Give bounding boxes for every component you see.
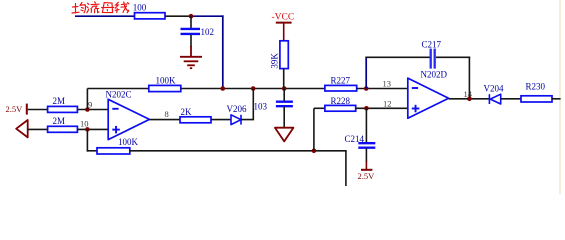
wire C217 riser right [468, 57, 470, 99]
svg-text:103: 103 [254, 101, 268, 111]
resistor R227 [325, 85, 357, 91]
wire 100K-top net (black, y=88.5) [87, 88, 148, 90]
svg-text:2M: 2M [53, 96, 66, 106]
power port 2.5V (bottom) [365, 161, 367, 170]
junction main net / diode node [251, 86, 256, 91]
junction bottom net / R228 riser [312, 149, 317, 154]
svg-text:102: 102 [201, 27, 215, 37]
op-amp N202C [108, 99, 149, 139]
capacitor 102 lower pin [190, 35, 192, 47]
svg-text:2M: 2M [53, 116, 66, 126]
svg-text:2.5V: 2.5V [6, 104, 24, 114]
svg-text:C217: C217 [422, 39, 442, 49]
wire 2M to pin10 [77, 128, 108, 130]
op-amp N202D [408, 78, 449, 118]
svg-text:8: 8 [165, 109, 169, 119]
diode V204 [488, 94, 490, 104]
svg-text:100: 100 [133, 3, 147, 13]
wire C217 riser left (navy) [365, 57, 367, 89]
resistor 39K [280, 41, 288, 69]
流 [87, 3, 89, 13]
wire vertical corner down to main net (navy) [222, 15, 224, 88]
wire diode to corner and up [241, 89, 253, 120]
wire resistor100 right pin (black) [165, 15, 191, 17]
wire to 2M bottom [28, 128, 48, 130]
svg-text:39K: 39K [270, 53, 280, 69]
junction pin 9 [85, 107, 90, 112]
wire R230 to sheet edge [552, 98, 561, 100]
svg-text:N202C: N202C [106, 90, 132, 100]
wire feedback riser (pin9 up to 100K net) [86, 89, 88, 110]
svg-text:2.5V: 2.5V [358, 171, 376, 181]
wire bottom net drop (to next stage) [345, 151, 347, 186]
svg-text:100K: 100K [156, 75, 177, 85]
wire y=88.5 middle run [181, 88, 325, 90]
线 [115, 2, 119, 12]
junction (top, cap 102 tap) [189, 14, 194, 19]
junction main net / 39K node [282, 86, 287, 91]
wire op-amp D output [449, 98, 490, 100]
svg-text:R227: R227 [331, 76, 351, 86]
capacitor C214 upper pin [365, 108, 367, 142]
wire pin10 down to bottom 100K [86, 129, 88, 151]
wire junction to corner (navy) [191, 15, 224, 17]
wire to 2M top [28, 109, 48, 111]
capacitor C102 pin (black stub) [190, 16, 192, 28]
junction pin12 / C214 [364, 106, 369, 111]
wire into bottom 100K [87, 150, 97, 152]
resistor R228 [325, 105, 356, 111]
svg-text:2K: 2K [181, 107, 193, 117]
capacitor C214 [358, 142, 375, 144]
wire bottom net long run [130, 150, 347, 152]
capacitor 102 [181, 28, 201, 30]
resistor 2M (top) [48, 106, 78, 112]
wire 2K to diode [211, 119, 231, 121]
junction pin 10 [85, 127, 90, 132]
wire into R228 from riser [314, 107, 325, 109]
net label 均流母线 [72, 2, 129, 13]
capacitor 103 lower pin [283, 107, 285, 128]
ground (bar style under 102) [180, 46, 202, 68]
capacitor 103 [276, 101, 293, 103]
capacitor 103 upper pin [283, 89, 285, 102]
wire V204 to R230 [501, 98, 521, 100]
resistor 2M (bottom) [48, 126, 78, 132]
svg-text:V206: V206 [227, 104, 247, 114]
svg-text:100K: 100K [118, 137, 139, 147]
wire 39K to main net [283, 69, 285, 89]
wire riser to R228 [313, 108, 315, 151]
wire top net (navy from label to resistor) [75, 15, 134, 17]
svg-text:R228: R228 [331, 96, 351, 106]
junction pin13 / C217 [364, 86, 369, 91]
wire R227 to pin13 [357, 88, 408, 90]
svg-text:10: 10 [80, 119, 89, 129]
resistor 100K (bottom) [97, 148, 130, 154]
svg-text:-VCC: -VCC [272, 13, 295, 23]
wire -VCC to 39K [283, 23, 285, 41]
resistor R230 [521, 96, 552, 102]
svg-text:R230: R230 [526, 82, 546, 92]
母 [102, 3, 114, 13]
input port (arrow) [16, 120, 28, 137]
svg-text:13: 13 [383, 78, 392, 88]
svg-text:C214: C214 [345, 134, 365, 144]
wire R228 to pin12 [356, 107, 408, 109]
wire C217 top left [365, 56, 430, 58]
resistor 100K (top feedback) [149, 85, 181, 91]
capacitor C214 lower pin [365, 149, 367, 163]
capacitor C217 [430, 49, 432, 69]
junction output / C217 [467, 97, 472, 102]
resistor 100 [135, 13, 166, 19]
svg-text:12: 12 [383, 99, 392, 109]
ground (triangle under 103) [275, 128, 293, 142]
均 [72, 4, 79, 14]
junction main net / top cap node [221, 86, 226, 91]
resistor 2K [180, 117, 211, 123]
wire op-amp C output [149, 119, 179, 121]
svg-text:N202D: N202D [421, 70, 448, 80]
wire C217 top right [436, 56, 470, 58]
svg-text:V204: V204 [484, 84, 504, 94]
wire 2M to pin9 [77, 109, 108, 111]
sheet border line [559, 0, 561, 194]
diode V206 [231, 115, 241, 125]
